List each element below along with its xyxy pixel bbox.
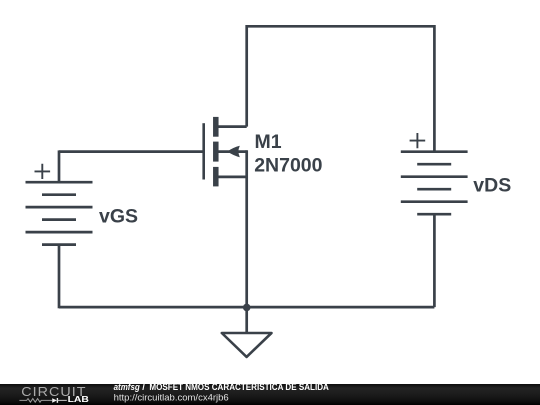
wire: vGS top terminal bbox=[58, 150, 61, 182]
wire: vGS bottom terminal bbox=[58, 245, 61, 309]
wire: vDS top terminal bbox=[433, 25, 436, 152]
ground bbox=[222, 333, 272, 357]
wire: vDS bottom terminal bbox=[433, 214, 436, 307]
wire: gate horizontal bbox=[59, 150, 203, 153]
transistor M1 2N7000 bbox=[204, 117, 247, 186]
body line bbox=[218, 150, 246, 153]
channel segment middle bbox=[213, 142, 219, 162]
wire: ground stem bbox=[245, 307, 248, 333]
logo diode bbox=[52, 398, 57, 403]
junction node bbox=[243, 304, 251, 312]
drain tab bbox=[218, 125, 246, 128]
svg-text:http://circuitlab.com/cx4rjb6: http://circuitlab.com/cx4rjb6 bbox=[114, 392, 229, 403]
footer bar bbox=[0, 384, 540, 405]
plus sign of vDS bbox=[410, 133, 426, 148]
source tab bbox=[218, 176, 246, 179]
wire: source vertical bbox=[245, 150, 248, 307]
svg-text:atmfsg: atmfsg bbox=[114, 382, 140, 392]
plus sign of vGS bbox=[35, 164, 51, 179]
gate bar bbox=[202, 123, 205, 179]
svg-text:/: / bbox=[142, 382, 145, 392]
battery V2 vDS bbox=[401, 152, 468, 215]
channel segment bottom bbox=[213, 167, 219, 187]
channel segment top bbox=[213, 117, 219, 137]
wire: bottom horizontal bbox=[59, 306, 434, 309]
wire: top horizontal (drain to vDS+) bbox=[247, 25, 435, 28]
battery V1 vGS bbox=[26, 182, 93, 244]
logo squiggle: resistor bbox=[19, 399, 52, 403]
body arrow bbox=[227, 146, 239, 157]
wire: drain vertical bbox=[245, 25, 248, 127]
svg-text:LAB: LAB bbox=[68, 395, 90, 404]
